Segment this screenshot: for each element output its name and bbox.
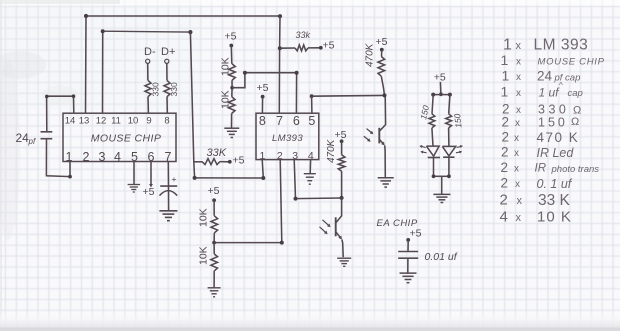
parts list row 7: 2 x 470 K (502, 130, 580, 146)
svg-text:D+: D+ (161, 46, 175, 58)
svg-text:10: 10 (128, 116, 139, 127)
svg-text:1 uf: 1 uf (539, 86, 561, 100)
0.01uf value label (425, 251, 458, 263)
wire LM393 pin4 to ground (309, 160, 311, 174)
svg-text:5: 5 (308, 114, 315, 128)
10K value label (lower) (220, 90, 232, 109)
svg-text:x: x (516, 72, 521, 83)
svg-text:330: 330 (169, 82, 179, 96)
svg-text:+5: +5 (335, 129, 347, 141)
parts list row 11: 2 x 33 K (500, 192, 571, 210)
ground (LED branch) (433, 194, 450, 202)
resistor R 470K #1 (378, 57, 385, 96)
resistor R 470K #2 (338, 155, 345, 198)
resistor R 330 (D- to pin9) (145, 63, 151, 113)
capacitor C 0.01uf (398, 252, 418, 273)
junction dot divider2 tap (212, 241, 216, 245)
resistor R 10K lower (divider 2) (211, 243, 218, 288)
svg-text:+5: +5 (257, 82, 269, 94)
parts list row 12: 4 x 10 K (500, 209, 572, 226)
svg-text:33k: 33k (296, 30, 311, 40)
wire LM393 pin5 to 470K junction (310, 94, 385, 113)
svg-text:8: 8 (259, 114, 266, 128)
LED D2 (IR Led right) (442, 146, 455, 157)
svg-text:0. 1 uf: 0. 1 uf (537, 177, 573, 191)
resistor R 33k pullup (LM393 pin7 rail) (280, 45, 323, 51)
svg-text:1: 1 (501, 84, 509, 100)
svg-text:x: x (517, 195, 523, 207)
svg-text:pf cap: pf cap (554, 73, 581, 84)
parts list row 1: 1 x LM 393 (503, 37, 588, 54)
LM393 top pin numbers 8 7 6 5 (259, 114, 316, 128)
svg-text:8: 8 (164, 116, 169, 127)
+5 supply at LM393 pin8 (257, 82, 269, 113)
junction dot (pin5 wire / 470K1 / photo1) (383, 93, 387, 97)
resistor R 10K upper (divider) (229, 64, 236, 88)
svg-text:MOUSE CHIP: MOUSE CHIP (538, 57, 605, 68)
svg-text:470K: 470K (326, 138, 337, 163)
+5 label (33K #2) (233, 155, 245, 167)
33k value label (296, 30, 311, 40)
svg-text:150: 150 (538, 116, 568, 130)
svg-text:IR: IR (535, 163, 547, 175)
ground (phototransistor Q1) (378, 178, 394, 187)
svg-text:+5: +5 (323, 40, 335, 52)
light arrows out of LED D1 (419, 145, 426, 154)
33K value label #2 (207, 147, 227, 159)
resistor R 10K upper (divider 2) (211, 216, 218, 243)
light arrows into phototransistor Q1 (364, 129, 374, 142)
svg-text:10K: 10K (198, 208, 210, 227)
svg-text:1: 1 (66, 150, 73, 164)
470K value label #1 (365, 42, 376, 67)
svg-text:24: 24 (537, 69, 553, 84)
+5 supply at mouse pin6 (143, 162, 155, 199)
svg-text:10K: 10K (220, 57, 232, 76)
svg-text:+5: +5 (208, 185, 220, 197)
parts list row 5: 2 x 330 ohm (502, 102, 581, 117)
svg-text:LM 393: LM 393 (534, 37, 589, 54)
svg-text:470K: 470K (365, 42, 376, 67)
mouse chip label (91, 133, 162, 145)
svg-text:4: 4 (114, 150, 121, 164)
top rail wire (pin13 to LM393 pin7) (84, 14, 282, 18)
10K value label (upper) (220, 57, 232, 76)
terminal D- (144, 46, 156, 64)
+5 supply (470K #2) (335, 129, 347, 155)
resistor R 330 (D+ to pin8) (164, 63, 170, 113)
resistor R 33K #2 (pin1 pullup) (194, 159, 232, 165)
svg-text:11: 11 (111, 116, 121, 127)
svg-text:13: 13 (79, 116, 90, 127)
wire mouse pin13 up to top rail (85, 16, 88, 113)
svg-text:2: 2 (83, 150, 90, 164)
wire mouse pin5 to ground (133, 162, 135, 185)
phototransistor Q2 (IR photo trans) (336, 198, 344, 257)
LED D1 (IR Led left) (426, 146, 440, 157)
phototransistor Q1 (IR photo trans) (379, 95, 385, 177)
svg-text:+: + (172, 174, 177, 184)
ground (mouse pin5) (128, 185, 141, 193)
24pf value label (16, 131, 36, 146)
wire LM393 pin3 to phototransistor 2 junction (294, 160, 342, 201)
wire second rail down to 33K junction and pin1 wire (190, 32, 194, 178)
svg-text:3: 3 (99, 150, 106, 164)
330 value label (left) (151, 82, 161, 96)
parts list row 2: 1 x MOUSE CHIP (501, 52, 605, 68)
svg-text:3: 3 (292, 150, 298, 162)
resistor R 10K lower (divider) (228, 88, 235, 128)
bottom scan fade (0, 310, 620, 331)
470K value label #2 (326, 138, 337, 163)
svg-text:cap: cap (568, 88, 583, 99)
wire LM393 pin1 down-left to 33K pullup (193, 160, 266, 180)
svg-text:2: 2 (501, 145, 509, 160)
svg-text:24: 24 (16, 131, 30, 145)
resistor R 150 left (429, 95, 435, 147)
wire 24pf cap bottom to mouse pin1 (46, 139, 72, 179)
svg-text:x: x (515, 118, 520, 129)
svg-text:MOUSE CHIP: MOUSE CHIP (91, 133, 162, 145)
second rail wire (pin12 to LM393 pin1 pullup) (101, 29, 193, 34)
svg-text:1: 1 (502, 68, 510, 84)
ground (10K divider 2) (208, 288, 221, 297)
EA CHIP label (377, 218, 418, 229)
svg-text:10K: 10K (220, 90, 232, 109)
svg-text:10K: 10K (198, 246, 210, 265)
parts list row 8: 2 x IR Led (501, 145, 574, 161)
svg-text:x: x (516, 40, 522, 52)
subtle scan tint top-left (0, 0, 200, 110)
svg-text:330: 330 (538, 103, 569, 117)
svg-text:+5: +5 (410, 228, 422, 240)
wire LED cathodes join (432, 157, 451, 194)
ground (phototransistor Q2) (337, 258, 351, 266)
svg-text:x: x (515, 179, 520, 190)
svg-text:10 K: 10 K (537, 209, 572, 226)
svg-text:Ω: Ω (573, 105, 581, 117)
IC mouse chip body (63, 113, 176, 161)
svg-text:pf: pf (28, 137, 36, 146)
wire mouse pin14 to 24pf cap (45, 94, 75, 131)
mouse chip top pin numbers 14 13 12 11 10 9 8 (65, 116, 170, 127)
svg-text:14: 14 (65, 116, 76, 127)
LM393 label (272, 133, 303, 144)
svg-text:+5: +5 (233, 155, 245, 167)
150 value label (left) (418, 104, 431, 120)
wire top rail down to LM393 pin7 (278, 16, 282, 113)
parts list row 6: 2 x 150 ohm (502, 115, 580, 130)
svg-text:470 K: 470 K (537, 130, 580, 145)
junction dot (pin3 / 470K2 / photo2) (340, 196, 344, 200)
light arrows out of LED D2 (456, 145, 463, 154)
svg-text:1: 1 (503, 37, 512, 54)
capacitor C 1uf (mouse pin7) (160, 162, 178, 211)
10K value label (div2 upper) (198, 208, 210, 227)
svg-text:2: 2 (502, 115, 510, 130)
svg-text:7: 7 (276, 114, 283, 128)
ground (1uf cap) (159, 211, 177, 221)
svg-text:x: x (514, 164, 519, 175)
wire divider tap to LM393 pin6 (230, 71, 298, 114)
svg-text:LM393: LM393 (272, 133, 303, 144)
parts list row 3: 1 x 24 pf cap (502, 68, 581, 84)
ground (10K divider) (224, 128, 239, 137)
svg-text:6: 6 (293, 114, 300, 128)
LM393 bottom pin numbers 1 2 3 4 (259, 150, 313, 162)
capacitor C 24pf (41, 132, 53, 139)
+5 supply (470K #1) (376, 36, 388, 57)
svg-text:12: 12 (96, 116, 107, 127)
svg-text:x: x (516, 105, 521, 116)
terminal D+ (161, 46, 175, 64)
svg-text:photo trans: photo trans (551, 164, 600, 175)
parts list row 9: 2 x IR photo trans (501, 160, 600, 175)
mouse chip bottom pin numbers 1 2 3 4 5 6 7 (66, 150, 172, 164)
resistor R 150 right (446, 95, 452, 147)
10K value label (div2 lower) (198, 246, 210, 265)
parts list row 4: 1 x 1 uf cap (501, 81, 583, 100)
svg-text:D-: D- (144, 46, 156, 58)
svg-text:+5: +5 (376, 36, 388, 48)
parts list row 10: 2 x 0.1 uf (501, 176, 573, 192)
svg-text:+5: +5 (434, 72, 446, 84)
svg-text:150: 150 (452, 113, 463, 128)
+5 label (33k) (323, 40, 335, 52)
svg-text:330: 330 (151, 82, 161, 96)
ground (0.01uf cap) (400, 273, 417, 283)
svg-text:^: ^ (559, 81, 563, 90)
+5 supply (LED branch) (434, 72, 446, 97)
330 value label (right) (169, 82, 179, 96)
wire mouse pin12 up to second rail (102, 31, 104, 113)
svg-text:2: 2 (501, 176, 509, 191)
svg-text:2: 2 (501, 160, 509, 175)
svg-text:x: x (514, 133, 519, 144)
150 value label (right) (452, 113, 463, 128)
svg-text:x: x (516, 57, 521, 68)
svg-text:33K: 33K (207, 147, 227, 159)
+5 supply (10K divider) (225, 31, 237, 64)
svg-text:x: x (514, 148, 519, 159)
svg-text:Ω: Ω (571, 116, 579, 128)
+5 supply (10K divider 2) (208, 185, 220, 216)
svg-text:33 K: 33 K (538, 192, 571, 209)
light arrows into phototransistor Q2 (320, 220, 331, 234)
wire LM393 pin2 down to divider 2 tap (214, 160, 284, 245)
svg-text:x: x (516, 212, 522, 224)
svg-text:0.01 uf: 0.01 uf (425, 251, 458, 263)
svg-text:2: 2 (500, 192, 508, 209)
wire LED branch top bar (431, 93, 452, 97)
svg-text:2: 2 (502, 130, 510, 145)
svg-text:x: x (516, 88, 521, 99)
IC LM393 body (256, 113, 319, 159)
svg-text:1: 1 (501, 52, 509, 68)
svg-text:+5: +5 (225, 31, 237, 43)
svg-text:4: 4 (500, 209, 508, 226)
svg-text:9: 9 (146, 116, 151, 127)
+5 supply (EA chip cap) (406, 228, 421, 252)
svg-text:+5: +5 (143, 186, 155, 198)
svg-text:IR Led: IR Led (537, 146, 575, 160)
ground (LM393 pin4) (304, 174, 316, 185)
